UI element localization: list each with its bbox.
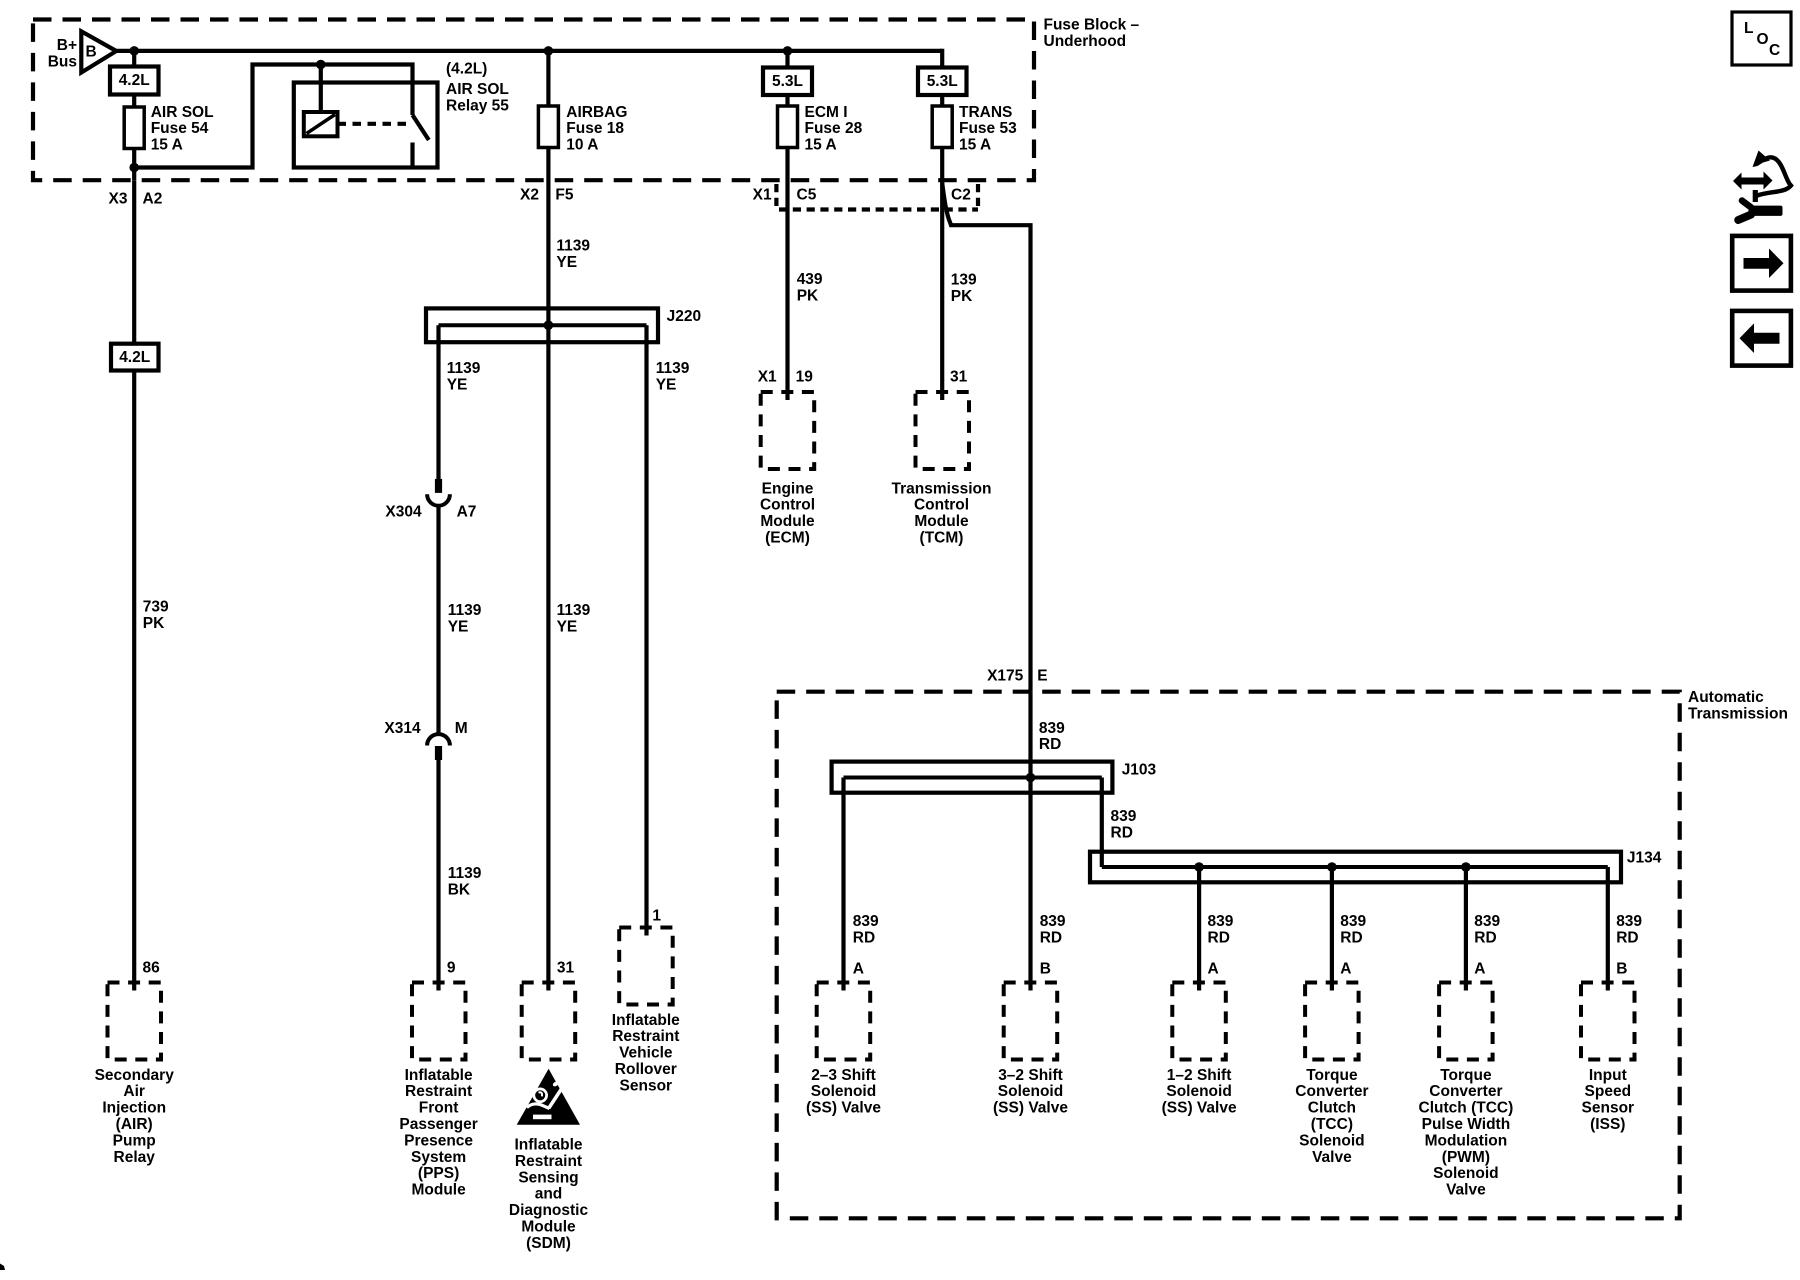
node: bus junction at fuse 54 branch [129,46,139,56]
svg-text:(PWM): (PWM) [1442,1149,1490,1166]
svg-text:5.3L: 5.3L [772,73,803,90]
svg-text:RD: RD [1616,930,1638,947]
svg-text:4.2L: 4.2L [119,72,150,89]
svg-text:Valve: Valve [1312,1149,1352,1166]
relay AIR SOL Relay 55 [294,61,509,168]
transmission control module (TCM) (dashed) [892,392,992,547]
svg-text:4.2L: 4.2L [119,349,150,366]
svg-text:Solenoid: Solenoid [1166,1083,1231,1100]
svg-text:X2: X2 [520,186,539,203]
svg-text:Pulse Width: Pulse Width [1422,1116,1511,1133]
fuse 18 AIRBAG 10A [538,104,627,154]
svg-text:Sensing: Sensing [518,1169,578,1186]
wire label 139 PK [951,272,977,305]
svg-text:Torque: Torque [1440,1067,1492,1084]
svg-text:Pump: Pump [113,1132,156,1149]
svg-text:Fuse 28: Fuse 28 [805,120,863,137]
inflatable restraint vehicle rollover sensor (dashed) [612,928,680,1095]
svg-text:YE: YE [447,377,468,394]
svg-text:Transmission: Transmission [892,480,992,497]
svg-text:Fuse Block –: Fuse Block – [1044,16,1140,33]
svg-text:Air: Air [123,1083,145,1100]
svg-text:139: 139 [951,272,977,289]
wire label 839 RD (TCC PWM) [1474,913,1500,946]
svg-text:31: 31 [950,369,968,386]
inflatable restraint front passenger presence system (PPS) module (dashed) [399,983,477,1199]
svg-text:Clutch: Clutch [1308,1100,1356,1117]
svg-text:RD: RD [1111,825,1133,842]
svg-text:YE: YE [448,618,469,635]
wire label 1139 YE (left branch upper) [447,360,481,393]
svg-text:(4.2L): (4.2L) [446,61,487,78]
wire label 839 RD (3-2 shift) [1040,913,1066,946]
svg-text:A: A [1474,960,1485,977]
wire label 1139 YE (right branch) [656,360,690,393]
svg-text:A: A [853,960,864,977]
svg-text:Control: Control [914,497,969,514]
4.2L engine tag (fuse 54) [110,67,159,95]
svg-text:Module: Module [411,1182,466,1199]
svg-text:Restraint: Restraint [612,1028,679,1045]
svg-text:X304: X304 [385,503,422,520]
wire: J134 to 1-2 shift solenoid (839 RD) [1197,867,1201,991]
svg-text:X3: X3 [109,190,128,207]
wire: B+ bus horizontal feed [114,49,942,53]
splice pack J134 [1090,849,1662,882]
svg-text:and: and [535,1186,563,1203]
node: junction at relay coil feed [316,60,326,70]
svg-text:10 A: 10 A [566,136,598,153]
wire: 4.2L tag to fuse 54 [132,95,136,108]
3-2 shift solenoid (SS) valve (dashed) [993,983,1068,1117]
svg-text:M: M [455,720,468,737]
svg-text:L: L [1744,20,1753,37]
svg-text:J220: J220 [667,308,701,325]
svg-text:3–2 Shift: 3–2 Shift [998,1067,1063,1084]
fuse 54 AIR SOL 15A [124,104,213,154]
wire: tag to fuse 28 [785,95,789,106]
svg-text:86: 86 [143,959,161,976]
forward navigation arrow box [1732,236,1791,291]
svg-text:RD: RD [1040,930,1062,947]
node: junction below fuse 54 [129,163,139,173]
node: J220 junction [544,320,554,330]
wire: circuit 739 PK fuse 54 to AIR pump relay [132,180,136,344]
wire: fuse 54 to junction [132,149,136,181]
torque converter clutch (TCC) solenoid valve (dashed) [1295,983,1368,1166]
splice pack J103 [832,761,1157,792]
scan speck artifact [0,1264,5,1271]
svg-text:Rollover: Rollover [615,1061,677,1078]
svg-text:15 A: 15 A [805,136,837,153]
wire: J103 right branch down to J134 (839 RD) [1100,778,1104,868]
svg-text:B: B [1040,960,1051,977]
svg-text:Restraint: Restraint [405,1083,472,1100]
svg-text:RD: RD [1039,736,1061,753]
svg-text:X1: X1 [758,369,777,386]
svg-text:AIR SOL: AIR SOL [151,104,214,121]
wire label 839 RD (1-2 shift) [1208,913,1234,946]
wire: fork to X175 feed (curved branch) [942,183,1030,692]
wire: bus to ECM 5.3L tag [785,51,789,68]
svg-text:RD: RD [1474,930,1496,947]
5.3L engine tag (ECM fuse) [763,68,812,96]
svg-text:Inflatable: Inflatable [405,1067,473,1084]
svg-text:(TCC): (TCC) [1311,1116,1353,1133]
wire: coil feed drop [319,65,323,113]
svg-text:PK: PK [143,615,165,632]
wire label 1139 BK [448,865,482,898]
svg-text:Module: Module [760,513,815,530]
node: J103 junction [1026,773,1036,783]
wire: drop to 4.2L tag (fuse 54) [132,51,136,67]
wire: J134 right end to input speed sensor (839 RD) [1606,867,1610,991]
secondary air injection (AIR) pump relay (dashed module) [95,983,175,1166]
svg-text:Solenoid: Solenoid [998,1083,1063,1100]
svg-text:PK: PK [951,288,973,305]
wire: X175 feed into J103 [1028,692,1032,778]
svg-text:839: 839 [1340,913,1366,930]
svg-text:Fuse 53: Fuse 53 [959,120,1017,137]
svg-text:Automatic: Automatic [1688,689,1764,706]
svg-text:A: A [1208,960,1219,977]
svg-text:(SDM): (SDM) [526,1235,571,1252]
svg-text:J103: J103 [1122,761,1157,778]
svg-text:Relay 55: Relay 55 [446,98,509,115]
connector label X1 C5 (dotted connector outline) [753,184,978,212]
svg-text:Bus: Bus [48,54,77,71]
svg-text:Valve: Valve [1446,1182,1486,1199]
svg-text:839: 839 [1111,808,1137,825]
node: J134 junction (1-2 shift) [1194,862,1204,872]
svg-text:Injection: Injection [102,1100,166,1117]
wire: J220 left branch down (1139 YE to PPS) [436,325,440,479]
B+ Bus power feed symbol [48,31,117,72]
svg-text:1139: 1139 [656,360,690,377]
svg-text:Diagnostic: Diagnostic [509,1202,589,1219]
svg-text:19: 19 [796,369,814,386]
engine control module (ECM) (dashed) [760,392,815,547]
svg-text:439: 439 [797,271,823,288]
svg-text:Fuse 18: Fuse 18 [566,120,624,137]
svg-text:2–3 Shift: 2–3 Shift [811,1067,876,1084]
node: J134 junction (TCC PWM) [1461,862,1471,872]
svg-text:839: 839 [1616,913,1642,930]
svg-text:Inflatable: Inflatable [514,1137,582,1154]
svg-text:O: O [1757,31,1769,48]
svg-text:A7: A7 [457,503,477,520]
svg-text:Torque: Torque [1306,1067,1358,1084]
svg-text:System: System [411,1149,466,1166]
svg-text:1: 1 [652,907,661,924]
svg-text:RD: RD [853,930,875,947]
svg-text:AIRBAG: AIRBAG [566,104,627,121]
svg-text:739: 739 [143,599,169,616]
svg-text:C: C [1769,42,1780,59]
wire label 839 RD (2-3 shift) [853,913,879,946]
wire: bus corner to TRANS 5.3L tag [940,51,942,68]
wire label 439 PK [797,271,823,304]
back navigation arrow box [1732,311,1791,366]
svg-text:F5: F5 [555,186,573,203]
svg-text:1–2 Shift: 1–2 Shift [1167,1067,1232,1084]
torque converter clutch (TCC) pulse width modulation (PWM) solenoid valve (dashed) [1419,983,1514,1199]
svg-text:Converter: Converter [1295,1083,1368,1100]
wire: circuit 1139 BK X314 to PPS module [436,759,440,991]
wire: J134 to TCC PWM solenoid (839 RD) [1464,867,1468,991]
svg-text:C2: C2 [951,186,971,203]
svg-text:5.3L: 5.3L [927,73,958,90]
wire label 839 RD (ISS) [1616,913,1642,946]
svg-text:X314: X314 [384,720,421,737]
svg-text:839: 839 [1040,913,1066,930]
input speed sensor (ISS) (dashed) [1581,983,1635,1134]
svg-text:PK: PK [797,287,819,304]
wire label 1139 YE (left branch lower) [448,602,482,635]
svg-text:839: 839 [1039,720,1065,737]
svg-text:1139: 1139 [448,602,482,619]
node: J134 junction (TCC solenoid) [1327,862,1337,872]
wire label 839 RD (J103 to J134) [1111,808,1137,841]
svg-text:B+: B+ [57,37,77,54]
wire: circuit 139 PK fuse 53 to TCM [940,148,944,401]
wire: 739 PK continues [132,371,136,991]
svg-text:839: 839 [1474,913,1500,930]
svg-text:B: B [86,43,97,60]
splice pack J220 [426,308,701,342]
svg-text:839: 839 [1208,913,1234,930]
wire: J103 through to 3-2 shift solenoid (839 RD) [1028,778,1032,991]
wire: J220 right branch down (1139 YE to rollover sensor) [644,325,648,935]
svg-text:Inflatable: Inflatable [612,1012,680,1029]
svg-text:RD: RD [1208,930,1230,947]
LOC legend box [1732,12,1791,65]
fuse 53 TRANS 15A [932,104,1017,154]
svg-text:Passenger: Passenger [399,1116,477,1133]
wire: X304 to X314 (1139 YE) [436,504,440,734]
svg-text:X1: X1 [753,186,772,203]
wire: circuit 1139 YE fuse 18 to J220 [546,148,550,343]
in-line connector X314 pin M [384,720,467,760]
wire: J103 left branch to 2-3 shift solenoid (839 RD) [841,778,845,991]
svg-text:Engine: Engine [762,480,814,497]
wire label 1139 YE (center column) [557,602,591,635]
svg-text:Presence: Presence [404,1132,473,1149]
svg-text:1139: 1139 [448,865,482,882]
svg-text:YE: YE [656,377,677,394]
svg-text:(ECM): (ECM) [765,530,810,547]
svg-text:1139: 1139 [557,602,591,619]
wire: bus to airbag fuse [546,51,550,106]
svg-text:Control: Control [760,497,815,514]
connector label X3 A2 [109,190,163,207]
svg-text:Solenoid: Solenoid [1433,1165,1498,1182]
svg-text:Front: Front [419,1100,459,1117]
inflatable restraint sensing and diagnostic module (SDM) (dashed) [509,983,589,1252]
svg-text:E: E [1037,667,1047,684]
wire: J134 to TCC solenoid (839 RD) [1330,867,1334,991]
automatic transmission (dashed enclosure) [777,689,1788,1218]
in-line connector X304 pin A7 [385,479,476,521]
connector label X1 19 (ECM pin) [758,369,813,386]
svg-text:Sensor: Sensor [1582,1100,1635,1117]
connector label X2 F5 [520,186,574,203]
svg-text:Sensor: Sensor [620,1077,673,1094]
svg-text:A2: A2 [143,190,163,207]
fuse block - underhood (dashed enclosure) [33,16,1139,180]
svg-text:1139: 1139 [556,237,590,254]
2-3 shift solenoid (SS) valve (dashed) [806,983,881,1117]
wire label 739 PK [143,599,169,632]
wire label 839 RD (TCC solenoid) [1340,913,1366,946]
svg-text:Relay: Relay [114,1149,156,1166]
wire: circuit 439 PK fuse 28 to ECM [785,148,789,401]
svg-text:Solenoid: Solenoid [811,1083,876,1100]
svg-text:Secondary: Secondary [95,1067,175,1084]
svg-text:Input: Input [1589,1067,1627,1084]
svg-text:Clutch (TCC): Clutch (TCC) [1419,1100,1514,1117]
svg-text:Modulation: Modulation [1425,1132,1508,1149]
svg-text:ECM I: ECM I [805,104,848,121]
svg-text:RD: RD [1340,930,1362,947]
svg-text:9: 9 [447,959,456,976]
svg-text:Underhood: Underhood [1044,33,1127,50]
svg-text:Solenoid: Solenoid [1299,1132,1364,1149]
1-2 shift solenoid (SS) valve (dashed) [1162,983,1237,1117]
svg-text:Vehicle: Vehicle [619,1045,673,1062]
svg-text:Transmission: Transmission [1688,706,1788,723]
svg-text:(PPS): (PPS) [418,1165,459,1182]
svg-text:Module: Module [914,513,969,530]
svg-text:15 A: 15 A [959,136,991,153]
svg-text:Restraint: Restraint [515,1153,582,1170]
diagnostic sketch icon (arrow and wrench) [1733,151,1791,221]
svg-text:Speed: Speed [1585,1083,1632,1100]
svg-text:A: A [1340,960,1351,977]
svg-text:839: 839 [853,913,879,930]
svg-text:(AIR): (AIR) [116,1116,153,1133]
svg-text:C5: C5 [797,186,817,203]
svg-text:31: 31 [557,959,575,976]
svg-text:X175: X175 [987,667,1024,684]
wire label 1139 YE (below F5) [556,237,590,270]
5.3L engine tag (TRANS fuse) [918,68,967,96]
svg-text:15 A: 15 A [151,137,183,154]
wire label 839 RD (feed into J103) [1039,720,1065,753]
svg-text:Converter: Converter [1429,1083,1502,1100]
svg-text:B: B [1616,960,1627,977]
fuse 28 ECM I 15A [778,104,863,154]
4.2L engine tag (lower left) [111,344,159,371]
svg-text:Module: Module [521,1219,576,1236]
svg-text:TRANS: TRANS [959,104,1012,121]
svg-text:(SS) Valve: (SS) Valve [993,1100,1068,1117]
wire: relay feed branch [134,65,412,168]
svg-text:(ISS): (ISS) [1590,1116,1625,1133]
svg-text:J134: J134 [1627,849,1662,866]
node: bus junction at ECM fuse branch [783,46,793,56]
svg-text:(SS) Valve: (SS) Valve [806,1100,881,1117]
wire: J220 center through to SDM (1139 YE) [546,342,550,990]
svg-text:(SS) Valve: (SS) Valve [1162,1100,1237,1117]
svg-text:(TCM): (TCM) [920,530,964,547]
svg-text:Fuse 54: Fuse 54 [151,120,209,137]
connector label X175 E [987,667,1048,684]
svg-text:YE: YE [557,618,578,635]
airbag warning triangle [517,1069,580,1125]
wire: tag to fuse 53 [940,95,944,106]
svg-text:YE: YE [556,254,577,271]
svg-text:BK: BK [448,881,471,898]
node: bus junction at airbag fuse branch [544,46,554,56]
svg-text:AIR SOL: AIR SOL [446,81,509,98]
svg-text:1139: 1139 [447,360,481,377]
